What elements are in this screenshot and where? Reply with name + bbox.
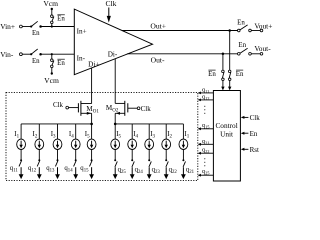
transistor MO1 xyxy=(77,103,79,112)
wire S8 to control unit xyxy=(229,81,231,88)
switch S2 arm xyxy=(52,17,54,22)
current source I3 (right) with switch q23 xyxy=(148,124,150,139)
switch S3 arm (En) xyxy=(31,49,38,54)
svg-text:Unit: Unit xyxy=(220,129,233,138)
svg-text:Di-: Di- xyxy=(108,50,118,58)
wire node B to op-amp In- xyxy=(41,53,75,55)
wire MO1 source to left bus xyxy=(91,113,93,124)
current source I4 (right) with switch q24 xyxy=(131,124,133,139)
switch S3 terminal circle xyxy=(20,53,23,56)
svg-text:En: En xyxy=(236,71,244,78)
switch S4 top circle xyxy=(51,59,54,62)
wire Out- xyxy=(127,53,238,55)
current source I2 (left) with switch q12 xyxy=(38,124,40,139)
current source I5 (left) with switch q15 xyxy=(91,124,93,139)
wire MO2 source to right bus xyxy=(114,113,116,124)
control unit input Rst xyxy=(243,148,249,150)
op-amp U1 triangle xyxy=(74,9,152,75)
wire Di- to MO2 xyxy=(114,59,116,104)
current source I4 (left) with switch q14 xyxy=(75,124,77,139)
svg-text:En: En xyxy=(237,19,245,26)
wire MO2 gate lead xyxy=(128,107,137,109)
control output ellipsis 1 xyxy=(204,106,205,107)
svg-text:Vcm: Vcm xyxy=(44,76,59,85)
current source I1 (left) with switch q11 xyxy=(20,124,22,139)
switch S7 (En-bar) xyxy=(222,70,225,73)
switch S4 arm xyxy=(52,61,54,66)
svg-text:En: En xyxy=(208,71,216,78)
node B dot xyxy=(39,53,42,56)
svg-text:En: En xyxy=(250,130,258,138)
svg-text:Clk: Clk xyxy=(106,0,117,8)
control unit box xyxy=(213,91,240,182)
switch S6 (En) to Vout- xyxy=(238,53,241,56)
Clk arrow into op-amp xyxy=(108,8,110,18)
svg-text:Out+: Out+ xyxy=(150,22,166,31)
junction dot Vcm/Vin+ xyxy=(51,25,53,27)
junction dot on Out+ xyxy=(228,29,231,32)
wire S2 to node A rail xyxy=(51,24,53,27)
wire node A to op-amp In+ xyxy=(41,26,75,28)
switch S1 arm (En) xyxy=(31,21,38,26)
wire Vin- to S3 pivot xyxy=(22,53,31,55)
junction dot Vcm/Vin- xyxy=(51,53,53,55)
wire Vcm top to S2 xyxy=(51,9,53,15)
svg-text:Vout-: Vout- xyxy=(254,44,271,53)
control unit input En xyxy=(243,132,249,134)
svg-text:Clk: Clk xyxy=(53,101,64,109)
wire S4 to Vcm bottom xyxy=(51,68,53,74)
svg-text:Clk: Clk xyxy=(141,105,152,113)
transistor MO2 xyxy=(115,102,125,104)
dashed current-DAC box xyxy=(6,92,198,180)
svg-text:En: En xyxy=(57,60,65,67)
junction dot MO2/right bus xyxy=(114,123,117,126)
switch S8 (En-bar) xyxy=(228,70,231,73)
switch S1 pivot dot xyxy=(30,25,32,27)
MO1 gate terminal circle xyxy=(66,106,69,109)
svg-text:En: En xyxy=(32,30,40,37)
switch S4 bottom circle xyxy=(51,65,54,68)
svg-text:En: En xyxy=(32,58,40,65)
svg-text:En: En xyxy=(238,42,246,49)
svg-text:Vin+: Vin+ xyxy=(0,22,15,31)
left bias bus xyxy=(21,123,92,125)
wire Out+ xyxy=(122,30,238,32)
wire S7 to control unit xyxy=(222,81,224,88)
svg-text:In+: In+ xyxy=(77,27,87,35)
junction dot on Out- xyxy=(222,53,225,56)
switch S1 terminal circle xyxy=(20,25,23,28)
current source I3 (left) with switch q13 xyxy=(57,124,59,139)
control output ellipsis 2 xyxy=(204,158,205,159)
Vcm bottom terminal dot xyxy=(51,72,53,74)
junction dot MO1/left bus xyxy=(90,123,93,126)
wire Clk to MO1 gate xyxy=(69,107,79,109)
svg-text:Vcm: Vcm xyxy=(43,0,58,8)
switch S3 pivot dot xyxy=(30,53,32,55)
wire Di+ to MO1 xyxy=(91,68,93,104)
control unit input Clk xyxy=(243,116,249,118)
switch S2 top circle xyxy=(51,15,54,18)
svg-text:Vin-: Vin- xyxy=(0,50,14,59)
current source I2 (right) with switch q22 xyxy=(165,124,167,139)
svg-text:Clk: Clk xyxy=(250,114,261,122)
wire node B to S4 xyxy=(51,54,53,59)
switch S2 bottom circle xyxy=(51,21,54,24)
current source I5 (right) with switch q25 xyxy=(114,124,116,139)
MO2 gate terminal circle xyxy=(137,107,140,110)
wire Vin+ to S1 pivot xyxy=(22,26,31,28)
svg-text:Di+: Di+ xyxy=(88,60,99,68)
wire drop from Out+ to switch S8 xyxy=(229,31,231,71)
right bias bus xyxy=(115,123,183,125)
svg-text:In-: In- xyxy=(77,54,86,62)
svg-text:En: En xyxy=(57,16,65,23)
svg-text:Out-: Out- xyxy=(151,55,165,64)
svg-text:Vout+: Vout+ xyxy=(254,21,272,30)
node A dot xyxy=(39,25,42,28)
wire drop from Out- to switch S7 xyxy=(222,54,224,70)
switch S5 (En) to Vout+ xyxy=(238,29,241,32)
svg-text:Rst: Rst xyxy=(250,146,259,154)
Vcm top terminal dot xyxy=(51,8,53,10)
current source I1 (right) with switch q21 xyxy=(182,124,184,139)
